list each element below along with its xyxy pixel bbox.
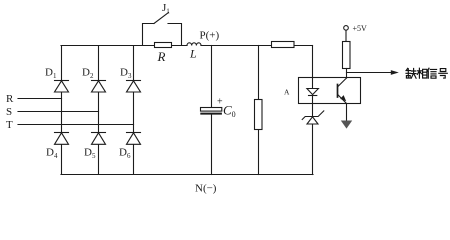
diode D5 [92,133,106,145]
svg-text:T: T [6,119,13,131]
optocoupler U1 box [299,78,361,104]
svg-text:+5V: +5V [353,24,368,33]
diode D1 [55,81,69,93]
wire phase R input [18,98,62,100]
relay contact J1 (parallel branch with switch) [143,13,182,46]
svg-text:L: L [189,47,197,61]
resistor R (series box on rail) [155,43,172,48]
resistor (pull-up) [343,42,351,69]
wire bottom rail N(-) bus [61,174,313,176]
glyph 缺 [406,68,416,78]
diode D3 [127,81,141,93]
ground [341,121,352,129]
wire capacitor leg from node P [211,46,213,108]
wire from +5V to pull-up resistor [345,30,347,41]
wire bridge leg 1 [61,46,63,175]
zener diode (clamp) [302,111,324,124]
glyph 号 [439,69,448,79]
wire bridge leg 3 [133,46,135,175]
+5V terminal [344,26,349,31]
wire rail between R and L [172,45,188,47]
resistor (series to opto LED) [272,42,295,48]
capacitor C0 (electrolytic) [201,108,222,114]
opto LED [307,89,319,96]
wire rail between R2 and opto leg corner [294,45,313,47]
label 缺相信号 (phase-loss signal), hand drawn strokes [406,68,447,78]
phototransistor Q1 [338,78,347,104]
svg-text:R: R [6,93,14,105]
wire opto LED leg [312,46,314,89]
resistor (vertical bleeder) [255,100,263,130]
wire bridge leg 2 [98,46,100,175]
wire resistor to collector [346,69,348,79]
svg-text:A: A [284,88,290,97]
wire bleeder resistor leg [258,46,260,101]
wire top rail P(+) bus [61,45,155,47]
glyph 信 [427,68,436,78]
svg-text:N(−): N(−) [195,183,217,195]
svg-text:R: R [157,49,166,64]
wire phase T input [18,124,134,126]
wire output signal with arrow [347,72,391,74]
svg-text:S: S [6,106,12,118]
inductor L (3 humps) [187,43,201,46]
diode D6 [127,133,141,145]
svg-text:P(+): P(+) [200,30,220,42]
wire rail between L and junction of bleeder [201,45,272,47]
diode D2 [92,81,106,93]
wire emitter down [346,104,348,121]
wire phase S input [18,111,99,113]
diode D4 [55,133,69,145]
glyph 相 [417,68,427,78]
